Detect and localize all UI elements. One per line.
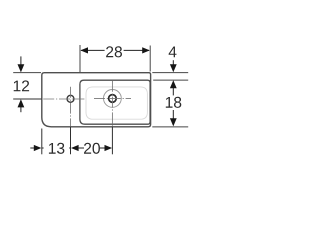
dim 4/18 middle extension line (bowl top extended)	[153, 79, 188, 81]
shelf hole centerline horizontal (dash-dot inside basin)	[43, 98, 84, 100]
dim 4/18 upper extension line (basin top extended)	[152, 72, 188, 74]
dim 18 line lower segment	[172, 110, 174, 119]
dim 18 lower extension line (bowl bottom extended)	[152, 126, 188, 128]
shelf hole centerline vertical (dash-dot)	[70, 87, 72, 127]
dim 18 label	[166, 97, 181, 108]
dim 18 line upper segment	[172, 88, 174, 95]
dim 13 label	[44, 140, 70, 155]
tap hole centerline horizontal (dash-dot)	[94, 97, 131, 99]
dim 12 label	[14, 80, 29, 91]
dim 18 bottom arrow (down)	[170, 118, 177, 126]
dim 12 lower reference line (solid, left of basin)	[13, 98, 41, 100]
dim 20 right arrow (points right at tap centerline)	[105, 145, 113, 151]
dim 18 top arrow (up, below bowl-top ext line)	[170, 80, 177, 88]
dim 28 label	[105, 43, 124, 58]
bowl rim rounded rect	[80, 80, 150, 124]
shelf hole circle	[67, 95, 74, 102]
dim 28 extension line left	[79, 45, 81, 72]
bowl inner faint line	[86, 87, 147, 119]
basin outer outline	[42, 73, 151, 127]
dim 4 label	[169, 46, 177, 57]
tap hole inner circle	[109, 95, 117, 103]
dim 20 line	[78, 147, 106, 149]
tap hole centerline vertical (dash-dot)	[111, 81, 113, 127]
dim 20 left arrow (points left at hole centerline)	[71, 145, 79, 151]
dim 28 extension line right	[149, 46, 151, 72]
dim 12 lower arrow (up) with stub below	[18, 99, 25, 107]
dim 4 stub and down arrow	[172, 60, 174, 64]
dim 28 arrow right	[142, 47, 150, 53]
shelf hole extension line down (solid, below basin)	[70, 127, 72, 155]
tap hole extension line down (solid, below basin)	[111, 127, 113, 155]
dim 12 upper extension line (basin top extended left)	[13, 72, 41, 74]
dim 28 arrow left	[80, 47, 88, 53]
dim 13 line	[42, 147, 71, 149]
dim 13 left stub and arrow (points right at basin edge)	[30, 147, 34, 149]
basin left edge extension line (bottom, for dim 13)	[41, 129, 43, 155]
tap hole outer circle	[104, 90, 122, 108]
dim 28 line	[81, 49, 149, 51]
dim 12 stub and down arrow	[20, 56, 22, 64]
dim 20 label	[84, 140, 100, 155]
